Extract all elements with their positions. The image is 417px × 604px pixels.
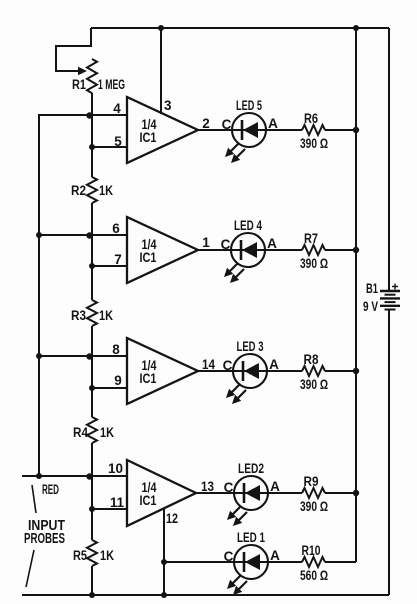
wire pin 8 input	[39, 355, 127, 357]
label 1/4 of U1d	[142, 480, 157, 495]
resistor R9 390 &#937;	[302, 488, 356, 498]
label 1/4 of U1a	[142, 117, 157, 132]
wire top V+ bus	[91, 27, 389, 29]
pin label 7	[114, 252, 122, 267]
svg-text:LED 3: LED 3	[237, 339, 264, 354]
svg-text:A: A	[268, 116, 278, 131]
svg-text:R2: R2	[71, 183, 86, 198]
node R9 on inner rail	[353, 490, 359, 496]
svg-text:390 Ω: 390 Ω	[300, 136, 328, 151]
label 390 &#937;	[300, 499, 328, 514]
label R2	[71, 183, 86, 198]
op-amp U1a (1/4 IC1) triangle	[127, 97, 198, 163]
svg-text:IC1: IC1	[140, 250, 157, 265]
svg-text:R4: R4	[73, 425, 88, 440]
svg-text:B1: B1	[366, 281, 378, 296]
svg-text:C: C	[222, 117, 232, 132]
node R8 on inner rail	[353, 368, 359, 374]
wire pin 11 input	[92, 508, 127, 510]
svg-text:12: 12	[166, 511, 178, 526]
svg-text:A: A	[267, 236, 277, 251]
op-amp U1c (1/4 IC1) triangle	[127, 338, 198, 404]
wire output pin 2 row to R6	[198, 129, 302, 131]
pin label 13	[201, 479, 214, 494]
node pin5 on chain	[89, 144, 95, 150]
node R7 on inner rail	[353, 247, 359, 253]
label C (cathode) of LED5	[222, 117, 232, 132]
label 1K of R4	[100, 425, 114, 440]
svg-text:IC1: IC1	[140, 371, 157, 386]
label R4	[73, 425, 88, 440]
svg-text:1K: 1K	[100, 548, 114, 563]
wire pin 6 input	[39, 234, 127, 236]
wire right battery rail upper segment	[388, 28, 390, 291]
pin label 2	[202, 116, 210, 131]
svg-text:R1: R1	[72, 77, 86, 92]
svg-text:R7: R7	[304, 231, 318, 246]
LED4 diode cathode bar	[240, 240, 243, 260]
LED4 light emission arrows	[224, 263, 244, 283]
svg-text:390 Ω: 390 Ω	[300, 499, 328, 514]
label 1K of R3	[99, 308, 113, 323]
svg-text:10: 10	[108, 461, 123, 476]
label R9	[304, 474, 319, 489]
svg-text:C: C	[223, 358, 233, 373]
svg-text:R10: R10	[302, 543, 321, 558]
node pin7 on chain	[89, 263, 95, 269]
wire pin 9 input	[92, 387, 127, 389]
label 1/4 of U1c	[142, 358, 157, 373]
pin label 1	[202, 235, 210, 250]
label C (cathode) of LED4	[221, 237, 231, 252]
node RED on left rail	[36, 473, 42, 479]
resistor R5 1K	[87, 540, 97, 566]
svg-text:C: C	[224, 549, 234, 564]
resistor R6 390 &#937;	[302, 125, 356, 135]
label LED2	[238, 461, 264, 476]
wiper arrowhead of R1	[78, 67, 87, 75]
junction chain with pin8 line	[86, 353, 92, 359]
label IC1 of U1d	[140, 493, 157, 508]
wire output pin 1 row to R7	[198, 249, 302, 251]
pin label 9	[114, 373, 122, 388]
node chain bottom on negative bus	[89, 592, 95, 598]
LED2 diode arrow (anode triangle)	[245, 485, 260, 501]
LED3 lens circle	[233, 354, 267, 388]
junction chain with pin4 line	[86, 112, 92, 118]
LED5 lens circle	[232, 113, 266, 147]
wire pin 3 to V+ bus	[160, 28, 162, 114]
wire chain segment R3 to R4	[91, 326, 93, 417]
node pin12 on negative bus	[161, 592, 167, 598]
label IC1 of U1c	[140, 371, 157, 386]
svg-text:RED: RED	[42, 482, 59, 497]
svg-text:1: 1	[202, 235, 210, 250]
LED5 light emission arrows	[225, 143, 245, 163]
label R7	[304, 231, 318, 246]
svg-text:IC1: IC1	[140, 493, 157, 508]
label IC1 of U1b	[140, 250, 157, 265]
svg-text:9: 9	[114, 373, 122, 388]
svg-text:14: 14	[202, 357, 215, 372]
svg-text:3: 3	[164, 98, 172, 113]
label R1	[72, 77, 86, 92]
wire bottom negative bus (black probe lead)	[22, 594, 389, 596]
pointer line to red probe wire	[32, 485, 36, 513]
label 1K of R2	[99, 183, 113, 198]
label R3	[71, 308, 86, 323]
svg-text:C: C	[224, 480, 234, 495]
label A (anode) of LED4	[267, 236, 277, 251]
svg-text:LED2: LED2	[238, 461, 264, 476]
wire chain segment R4 to R5	[91, 443, 93, 540]
LED3 diode arrow (anode triangle)	[244, 363, 259, 379]
label C (cathode) of LED1	[224, 549, 234, 564]
label LED 5	[236, 98, 262, 113]
svg-text:LED 4: LED 4	[234, 218, 262, 233]
resistor R3 1K	[87, 300, 97, 326]
svg-text:9 V: 9 V	[363, 299, 378, 314]
svg-text:1K: 1K	[99, 183, 113, 198]
label LED 1	[237, 530, 265, 545]
wire pin 12 down to negative bus	[163, 508, 165, 595]
wire output pin 14 row to R8	[198, 370, 302, 372]
pin label 14	[202, 357, 215, 372]
svg-text:1K: 1K	[99, 308, 113, 323]
wire LED 1 row from pin 12 rail to R10	[164, 561, 302, 563]
wire inner V+ feeder rail	[355, 28, 357, 562]
label 9 V	[363, 299, 378, 314]
pin label 6	[112, 221, 120, 236]
svg-text:LED 5: LED 5	[236, 98, 262, 113]
wire chain segment R1 bottom to R2 top	[91, 93, 93, 177]
label R5	[73, 548, 87, 563]
pointer line to black probe wire	[26, 550, 34, 587]
svg-text:R9: R9	[304, 474, 319, 489]
label C (cathode) of LED3	[223, 358, 233, 373]
node pin11 on chain	[89, 506, 95, 512]
battery B1 9V cells	[380, 284, 400, 310]
svg-text:R3: R3	[71, 308, 86, 323]
wire right battery rail lower segment	[388, 310, 390, 596]
svg-text:7: 7	[114, 252, 122, 267]
svg-text:A: A	[270, 479, 280, 494]
pin label 12	[166, 511, 178, 526]
wire chain segment R5 to ground bus	[91, 566, 93, 595]
svg-text:R5: R5	[73, 548, 87, 563]
svg-text:560 Ω: 560 Ω	[300, 568, 328, 583]
wire chain segment R2 to R3	[91, 203, 93, 300]
svg-text:R6: R6	[304, 111, 318, 126]
LED2 lens circle	[234, 476, 268, 510]
node inner rail on V+ bus	[353, 25, 359, 31]
LED2 light emission arrows	[227, 506, 247, 526]
label RED	[42, 482, 59, 497]
op-amp U1b (1/4 IC1) triangle	[127, 217, 198, 283]
LED4 diode arrow (anode triangle)	[242, 242, 257, 258]
svg-text:2: 2	[202, 116, 210, 131]
svg-text:6: 6	[112, 221, 120, 236]
svg-text:IC1: IC1	[140, 130, 157, 145]
label 390 &#937;	[300, 136, 328, 151]
svg-text:1 MEG: 1 MEG	[98, 77, 125, 92]
label IC1 of U1a	[140, 130, 157, 145]
label 390 &#937;	[300, 256, 328, 271]
svg-text:R8: R8	[304, 352, 319, 367]
LED3 light emission arrows	[226, 384, 246, 404]
label A (anode) of LED2	[270, 479, 280, 494]
svg-text:LED 1: LED 1	[237, 530, 265, 545]
pin label 8	[112, 342, 120, 357]
LED4 lens circle	[231, 233, 265, 267]
wire RED probe lead / pin 10 input	[22, 475, 127, 477]
label A (anode) of LED1	[270, 548, 280, 563]
label R6	[304, 111, 318, 126]
LED5 diode arrow (anode triangle)	[243, 122, 258, 138]
LED1 light emission arrows	[227, 575, 247, 595]
op-amp U1d (1/4 IC1) triangle	[127, 460, 196, 526]
pin label 10	[108, 461, 123, 476]
label 560 &#937;	[300, 568, 328, 583]
svg-text:4: 4	[113, 101, 121, 116]
svg-text:A: A	[269, 357, 279, 372]
node pin3 on V+ bus	[158, 25, 164, 31]
svg-text:C: C	[221, 237, 231, 252]
wire pin 5 input	[92, 146, 127, 148]
svg-text:1K: 1K	[100, 425, 114, 440]
LED1 lens circle	[234, 545, 268, 579]
LED3 diode cathode bar	[242, 361, 245, 381]
pin label 3	[164, 98, 172, 113]
label 1 MEG	[98, 77, 125, 92]
LED5 diode cathode bar	[241, 120, 244, 140]
resistor R2 1K	[87, 177, 97, 203]
svg-text:390 Ω: 390 Ω	[300, 377, 328, 392]
node R6 on inner rail	[353, 127, 359, 133]
wire R1 wiper loop from V+ bus	[56, 28, 91, 71]
wire left probe input rail	[38, 114, 40, 476]
resistor R8 390 &#937;	[302, 366, 356, 376]
label B1	[366, 281, 378, 296]
label R10	[302, 543, 321, 558]
svg-text:PROBES: PROBES	[24, 531, 65, 547]
potentiometer R1 1 MEG element	[87, 59, 97, 93]
junction chain with pin6 line	[86, 232, 92, 238]
resistor R7 390 &#937;	[302, 245, 356, 255]
svg-text:390 Ω: 390 Ω	[300, 256, 328, 271]
pin label 5	[114, 134, 122, 149]
wire pin 4 input	[39, 114, 127, 116]
LED1 diode cathode bar	[243, 552, 246, 572]
label A (anode) of LED3	[269, 357, 279, 372]
node pin8 on left rail	[36, 353, 42, 359]
label INPUT	[28, 517, 65, 534]
pin label 4	[113, 101, 121, 116]
node pin6 on left rail	[36, 232, 42, 238]
label PROBES	[24, 531, 65, 547]
LED1 diode arrow (anode triangle)	[245, 554, 260, 570]
svg-text:8: 8	[112, 342, 120, 357]
svg-text:A: A	[270, 548, 280, 563]
svg-text:11: 11	[110, 495, 124, 510]
junction chain with RED line	[86, 473, 92, 479]
label 1K of R5	[100, 548, 114, 563]
node pin9 on chain	[89, 385, 95, 391]
LED2 diode cathode bar	[243, 483, 246, 503]
wire pin 7 input	[92, 265, 127, 267]
label 390 &#937;	[300, 377, 328, 392]
wire output pin 13 row to R9	[196, 492, 302, 494]
pin label 11	[110, 495, 124, 510]
label R8	[304, 352, 319, 367]
svg-text:13: 13	[201, 479, 214, 494]
label LED 3	[237, 339, 264, 354]
node LED1 row on pin12 rail	[161, 559, 167, 565]
svg-text:5: 5	[114, 134, 122, 149]
label LED 4	[234, 218, 262, 233]
resistor R4 1K	[87, 417, 97, 443]
label 1/4 of U1b	[142, 237, 157, 252]
label A (anode) of LED5	[268, 116, 278, 131]
resistor R10 560 &#937;	[302, 557, 356, 567]
label C (cathode) of LED2	[224, 480, 234, 495]
